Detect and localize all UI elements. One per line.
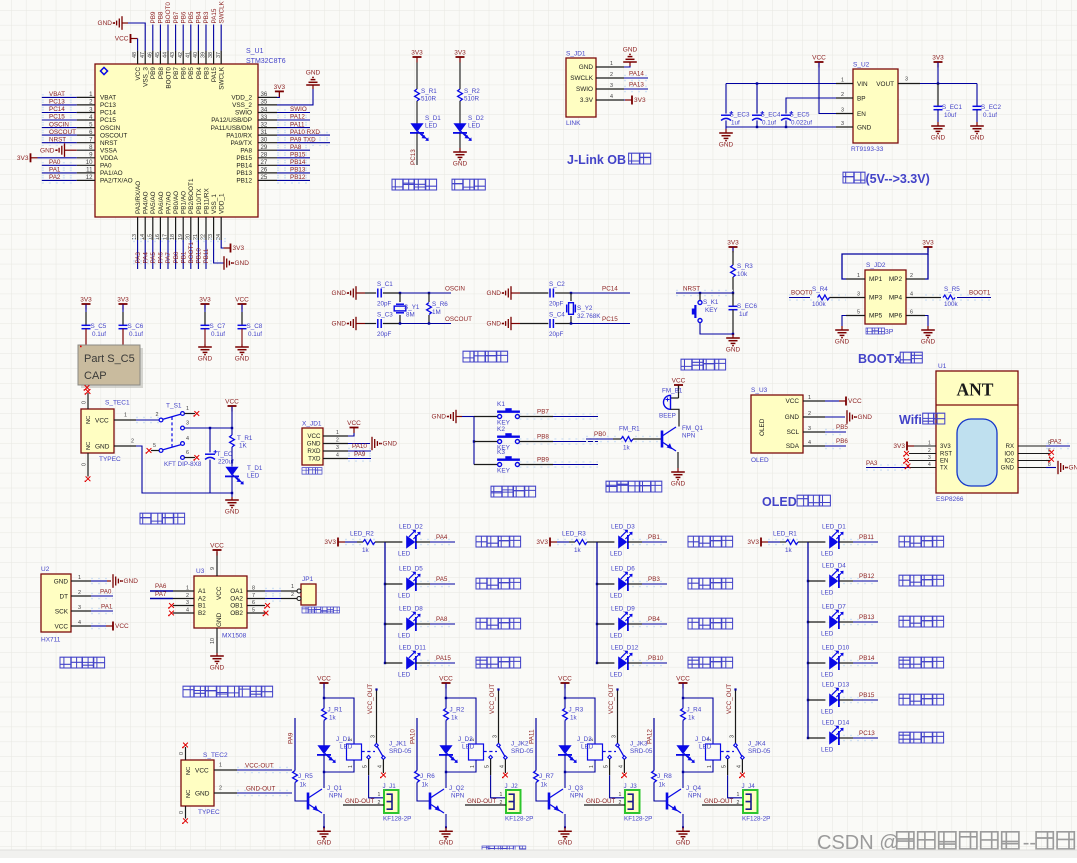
svg-text:J_JK2: J_JK2 [511, 741, 529, 748]
U1 left pins and nets [77, 96, 95, 98]
svg-text:S_JD1: S_JD1 [566, 51, 586, 58]
svg-text:PB15: PB15 [236, 155, 252, 162]
no-connect at U1 EN [904, 458, 909, 463]
capacitor S_EC3 1uf [725, 84, 727, 114]
svg-text:MP2: MP2 [889, 276, 903, 283]
svg-text:GND: GND [671, 480, 686, 487]
svg-text:J_R5: J_R5 [298, 773, 313, 780]
power VCC above S_U2 [815, 61, 824, 63]
svg-text:10uf: 10uf [944, 112, 957, 119]
svg-text:PA6/AO: PA6/AO [158, 191, 165, 214]
svg-text:PA10: PA10 [410, 729, 417, 744]
svg-text:PB9: PB9 [150, 11, 157, 23]
net PB8 at K2 [519, 441, 553, 443]
wire PC15 [555, 323, 571, 325]
svg-text:PB6: PB6 [181, 67, 188, 80]
svg-text:GND: GND [235, 355, 250, 362]
power 3V3 above S_R3 [729, 246, 738, 248]
svg-text:VCC: VCC [195, 768, 209, 775]
svg-text:GND: GND [332, 290, 347, 297]
svg-text:PB3: PB3 [203, 67, 210, 80]
svg-text:3V3: 3V3 [940, 444, 951, 450]
svg-text:VSS_2: VSS_2 [232, 102, 252, 109]
svg-text:PB14: PB14 [290, 159, 306, 166]
svg-text:20pF: 20pF [549, 301, 564, 308]
svg-text:GND: GND [676, 840, 691, 847]
svg-text:PA2: PA2 [49, 174, 61, 181]
svg-text:3: 3 [371, 735, 377, 738]
LED LED_D11 [385, 662, 402, 664]
wire buzzer to collector [671, 409, 680, 418]
ground left of S_C1 [355, 286, 357, 300]
LED LED_D5 [385, 583, 402, 585]
svg-text:BOOT0: BOOT0 [165, 2, 172, 24]
svg-text:1: 1 [336, 430, 339, 436]
wire key to ground rail [700, 323, 733, 334]
svg-text:HX711: HX711 [41, 637, 61, 644]
wire VIN rail [726, 83, 836, 85]
net BOOT0 and resistor S_R4 100k [789, 297, 810, 299]
svg-text:S_C3: S_C3 [377, 312, 393, 319]
svg-text:PA11: PA11 [290, 121, 305, 128]
svg-text:VCC: VCC [115, 623, 129, 630]
no-connect at J_JK2 pin 4 [504, 759, 506, 773]
capacitor S_C3 20pF [377, 319, 379, 328]
power 3V3 above S_R1 [413, 56, 422, 58]
svg-text:GND: GND [432, 414, 447, 421]
svg-text:J_R2: J_R2 [450, 707, 465, 714]
svg-text:3V3: 3V3 [117, 297, 129, 304]
net PC13 at LED_D14 [839, 737, 853, 739]
svg-text:5: 5 [604, 765, 610, 768]
transistor J_Q1 NPN [307, 793, 310, 810]
svg-text:VCC: VCC [95, 418, 109, 425]
svg-text:B1: B1 [198, 603, 206, 610]
net PA5 at LED_D5 [416, 583, 430, 585]
LED LED_D12 [597, 662, 614, 664]
svg-text:2: 2 [500, 800, 503, 806]
svg-text:2: 2 [131, 439, 134, 445]
svg-text:PC13: PC13 [410, 149, 417, 165]
svg-text:(5V-->3.3V): (5V-->3.3V) [866, 172, 930, 186]
svg-text:OSCOUT: OSCOUT [49, 129, 76, 136]
caption relay circuit partially hidden [482, 846, 488, 852]
LED J_D2 [439, 745, 452, 754]
svg-text:2: 2 [808, 411, 811, 417]
capacitor S_C6 0.1uf [122, 305, 124, 313]
svg-text:3: 3 [841, 108, 844, 114]
caption programmable lamp [392, 179, 403, 190]
svg-text:GND: GND [453, 160, 468, 167]
no-connect at U3 OB2 [264, 611, 269, 616]
no-connect at U1 IO0 [1046, 453, 1050, 455]
svg-text:GND: GND [487, 290, 502, 297]
svg-text:S_Y2: S_Y2 [577, 305, 593, 312]
svg-text:20pF: 20pF [549, 331, 564, 338]
caption key circuit [491, 486, 502, 497]
svg-text:3V3: 3V3 [922, 240, 934, 247]
svg-text:3V3: 3V3 [893, 443, 905, 450]
net PA15 at LED_D11 [416, 662, 430, 664]
connector S_JD2 jumper 3P [865, 270, 906, 324]
LED LED_D2 [385, 541, 402, 543]
svg-text:VCC: VCC [307, 433, 321, 440]
svg-text:GND: GND [198, 355, 213, 362]
resistor LED_R1 1k [780, 541, 786, 543]
svg-text:3: 3 [78, 605, 81, 611]
svg-text:LED: LED [699, 744, 712, 751]
svg-text:100k: 100k [944, 301, 959, 308]
svg-text:PA6: PA6 [155, 583, 167, 590]
LED LED_D8 [385, 623, 402, 625]
svg-text:2: 2 [336, 438, 339, 444]
svg-text:MP4: MP4 [889, 295, 903, 302]
driver U3 MX1508 [194, 576, 247, 628]
net PA11 wire [535, 718, 537, 771]
svg-text:PA9 TXD: PA9 TXD [290, 136, 316, 143]
svg-text:0.022uf: 0.022uf [791, 120, 812, 127]
svg-text:1: 1 [186, 586, 189, 592]
svg-text:LED_D9: LED_D9 [611, 606, 635, 613]
wire J_D1 to collector of J_Q1 [323, 755, 325, 788]
svg-text:1k: 1k [422, 782, 430, 789]
LED LED_D3 [597, 541, 614, 543]
svg-text:OB2: OB2 [230, 610, 243, 617]
svg-text:3V3: 3V3 [324, 539, 336, 546]
power 3V3 above S_JD2 [924, 246, 933, 248]
svg-text:PA9: PA9 [354, 451, 366, 458]
svg-text:RT9193-33: RT9193-33 [851, 146, 884, 153]
wire OSCIN [383, 292, 400, 294]
svg-text:GND: GND [124, 578, 139, 585]
ground below J_Q3 [564, 814, 566, 827]
svg-text:PB13: PB13 [236, 170, 252, 177]
svg-text:1k: 1k [362, 547, 370, 554]
svg-text:PB0/AO: PB0/AO [173, 191, 180, 214]
S_TEC1 pin 2 wire to ground rail [114, 445, 136, 447]
svg-text:5: 5 [857, 310, 860, 316]
no-connect at J_JK3 pin 4 [623, 759, 625, 773]
svg-text:OSCIN: OSCIN [49, 121, 69, 128]
svg-text:JP1: JP1 [302, 576, 314, 583]
svg-text:PB5: PB5 [188, 67, 195, 80]
svg-text:3P: 3P [885, 329, 894, 336]
svg-text:PB1: PB1 [648, 534, 660, 541]
wire VCC to EN [819, 63, 836, 114]
net PA1 at U2 pin 3 [91, 610, 113, 612]
svg-text:VIN: VIN [857, 81, 868, 88]
svg-text:BEEP: BEEP [659, 413, 676, 420]
svg-text:VCC: VCC [786, 398, 800, 405]
svg-text:0.1uf: 0.1uf [762, 120, 776, 127]
svg-text:PB7: PB7 [173, 67, 180, 80]
svg-text:2: 2 [610, 72, 613, 78]
svg-text:SWCLK: SWCLK [570, 75, 593, 82]
svg-text:LED: LED [340, 744, 353, 751]
svg-text:J_Q4: J_Q4 [686, 785, 702, 792]
wire VCC to relay coil of J_JK1 [324, 698, 354, 744]
wire 3V3 loop to pins 1 and 2 [842, 248, 928, 280]
capacitor S_C7 0.1uf [204, 305, 206, 313]
svg-text:S_C6: S_C6 [128, 323, 144, 330]
svg-text:GND: GND [317, 840, 332, 847]
svg-text:PB10: PB10 [196, 248, 203, 264]
svg-text:LED_R2: LED_R2 [350, 531, 374, 538]
svg-text:PA14: PA14 [629, 71, 644, 78]
svg-text:3: 3 [730, 735, 736, 738]
svg-text:GND-OUT: GND-OUT [467, 798, 497, 805]
svg-text:LED_D13: LED_D13 [822, 682, 850, 689]
svg-text:PA5/AO: PA5/AO [150, 191, 157, 214]
svg-text:OSCOUT: OSCOUT [100, 132, 127, 139]
svg-text:1: 1 [500, 792, 503, 798]
svg-text:PB12: PB12 [236, 178, 252, 185]
svg-text:LED_D5: LED_D5 [399, 566, 423, 573]
relay coil of J_JK1 [347, 744, 362, 760]
ground at U1 VSS_3 pin 47 [121, 16, 123, 30]
svg-text:0: 0 [82, 401, 88, 404]
svg-text:1k: 1k [451, 715, 459, 722]
power VCC at U1 pin 48 [130, 34, 132, 43]
svg-text:ANT: ANT [957, 380, 994, 400]
svg-text:S_JD2: S_JD2 [866, 262, 886, 269]
key ground bus [473, 417, 475, 465]
ground below S_C7 [204, 329, 206, 344]
svg-text:2: 2 [291, 592, 294, 598]
ground left of S_C4 [510, 317, 512, 330]
wire J_D2 to collector of J_Q2 [445, 755, 447, 788]
svg-text:BP: BP [857, 96, 866, 103]
svg-text:LED: LED [247, 473, 260, 480]
resistor J_R6 1k [415, 771, 420, 783]
LED_R2 LED bus wire [384, 542, 386, 663]
push button S_K1 KEY [699, 293, 701, 300]
svg-text:GND: GND [210, 664, 225, 671]
svg-text:VCC-OUT: VCC-OUT [245, 763, 274, 770]
svg-text:PA15: PA15 [436, 655, 451, 662]
svg-text:LED_D6: LED_D6 [611, 566, 635, 573]
svg-text:LED_D2: LED_D2 [399, 524, 423, 531]
caption PB13 lamp circuit [899, 616, 910, 627]
svg-text:LED: LED [821, 551, 834, 558]
svg-text:VCC: VCC [210, 543, 224, 550]
net PA14 at S_JD1 pin 2 [624, 77, 648, 79]
power 3V3 at U1 3V3 pin [906, 442, 908, 451]
svg-text:PB11: PB11 [203, 248, 210, 263]
net PB4 at LED_D9 [628, 623, 642, 625]
svg-text:PB9: PB9 [537, 457, 549, 464]
svg-text:VCC: VCC [317, 676, 331, 683]
svg-text:VCC_OUT: VCC_OUT [726, 684, 733, 714]
svg-text:0.1uf: 0.1uf [248, 331, 262, 338]
svg-text:LED: LED [821, 747, 834, 754]
svg-text:NPN: NPN [451, 793, 465, 800]
ground at U3 pin 10 [216, 628, 218, 653]
U1 right pins and nets [258, 96, 277, 98]
svg-text:J_JK4: J_JK4 [748, 741, 766, 748]
svg-text:PA9: PA9 [288, 732, 295, 744]
connector JP1 motor socket [301, 584, 316, 605]
svg-text:GND: GND [835, 338, 850, 345]
svg-text:EN: EN [940, 459, 948, 465]
svg-text:SRD-05: SRD-05 [511, 748, 534, 755]
svg-text:J_Q1: J_Q1 [327, 785, 343, 792]
wire OA1 to JP1 pin 1 [265, 590, 281, 592]
svg-text:LED: LED [398, 633, 411, 640]
svg-text:PB1/AO: PB1/AO [181, 191, 188, 214]
net PB1 at LED_D3 [628, 541, 642, 543]
svg-text:GND: GND [726, 346, 741, 353]
svg-text:NRST: NRST [100, 140, 117, 147]
bottom scrollbar strip [0, 850, 1077, 858]
svg-text:VCC_OUT: VCC_OUT [489, 684, 496, 714]
wire J_JK3 pin 5 to J_J3 [609, 759, 611, 775]
svg-text:GND: GND [195, 791, 210, 798]
svg-text:4: 4 [737, 765, 743, 768]
svg-text:PA1: PA1 [101, 604, 113, 611]
svg-text:PB4: PB4 [196, 11, 203, 23]
ground at X_JD1 pin 2 [348, 443, 370, 445]
svg-text:PB7: PB7 [537, 409, 549, 416]
svg-text:KEY: KEY [497, 468, 511, 475]
svg-text:1: 1 [857, 273, 860, 279]
svg-text:U2: U2 [41, 566, 50, 573]
svg-text:3: 3 [857, 292, 860, 298]
svg-text:OLED: OLED [762, 495, 797, 509]
wire BP to S_EC5 [786, 98, 836, 114]
svg-text:PA3: PA3 [866, 460, 878, 467]
svg-text:510R: 510R [464, 96, 480, 103]
svg-text:VBAT: VBAT [49, 91, 65, 98]
svg-text:3V3: 3V3 [747, 539, 759, 546]
power 3V3 feeding LED_R2 [337, 538, 339, 547]
svg-text:PA8: PA8 [290, 144, 302, 151]
caption weighing module [60, 657, 71, 668]
ground of TEC1 circuit [231, 497, 233, 500]
ground left of key circuit [455, 410, 457, 423]
svg-text:S_EC2: S_EC2 [981, 104, 1001, 111]
no-connect at U1 IO2 [1046, 460, 1050, 462]
svg-text:LED: LED [398, 551, 411, 558]
svg-text:1uf: 1uf [739, 311, 748, 318]
net PA2 at U1 RX [1046, 445, 1070, 447]
svg-text:NPN: NPN [682, 433, 696, 440]
svg-text:PA1/AO: PA1/AO [100, 170, 123, 177]
svg-text:1: 1 [348, 765, 354, 768]
svg-text:SCK: SCK [55, 608, 69, 615]
svg-text:VSSA: VSSA [100, 147, 118, 154]
svg-text:BOOT1: BOOT1 [969, 290, 991, 297]
svg-text:5: 5 [252, 608, 255, 614]
LED J_D4 [676, 745, 689, 754]
ground below S_D2 [459, 133, 461, 148]
svg-text:PB15: PB15 [859, 692, 875, 699]
svg-text:BOOT1: BOOT1 [188, 242, 195, 264]
svg-text:10k: 10k [737, 271, 748, 278]
wire PC14 [555, 292, 571, 294]
wire J_D3 to collector of J_Q3 [564, 755, 566, 788]
svg-text:1k: 1k [688, 715, 696, 722]
svg-text:OLED: OLED [751, 457, 769, 464]
svg-text:2: 2 [737, 800, 740, 806]
LED LED_D1 [808, 541, 825, 543]
svg-text:GND: GND [307, 441, 321, 448]
svg-text:SWIO: SWIO [235, 110, 252, 117]
resistor T_R1 1K [231, 407, 233, 436]
LED LED_D4 [808, 580, 825, 582]
svg-text:FM_R1: FM_R1 [619, 426, 640, 433]
svg-text:4: 4 [610, 94, 613, 100]
svg-text:PB15: PB15 [290, 152, 306, 159]
svg-text:4: 4 [378, 765, 384, 768]
svg-text:5: 5 [722, 765, 728, 768]
svg-text:S_EC4: S_EC4 [761, 112, 781, 119]
svg-text:1k: 1k [623, 445, 631, 452]
capacitor S_EC4 0.1uf [756, 84, 758, 114]
svg-text:3: 3 [186, 600, 189, 606]
svg-text:1k: 1k [659, 782, 667, 789]
connector J_J2 KF128-2P [506, 790, 521, 813]
caption PB15 lamp circuit [899, 694, 910, 705]
svg-text:0.1uf: 0.1uf [129, 331, 143, 338]
module U1 ESP8266 [936, 371, 1018, 493]
svg-text:FM_B1: FM_B1 [662, 388, 683, 395]
svg-text:PA0: PA0 [49, 159, 61, 166]
svg-text:VOUT: VOUT [876, 81, 894, 88]
net PB11 at LED_D1 [839, 541, 853, 543]
svg-text:MP5: MP5 [869, 313, 883, 320]
push button K3 KEY [474, 464, 498, 466]
svg-text:100k: 100k [812, 301, 827, 308]
power 3V3 at S_JD1 pin 4 [624, 99, 625, 101]
power VCC above J_R2 [442, 682, 451, 684]
svg-text:TXD: TXD [308, 456, 321, 463]
caption power lamp [452, 179, 463, 190]
svg-text:510R: 510R [421, 96, 437, 103]
svg-text:4: 4 [186, 436, 189, 442]
svg-text:U3: U3 [196, 568, 205, 575]
svg-text:PA10/RX: PA10/RX [226, 132, 253, 139]
svg-text:BOOTx: BOOTx [858, 352, 901, 366]
power VCC at U2 pin 4 [91, 625, 106, 627]
svg-text:PA7: PA7 [165, 252, 172, 264]
svg-text:2: 2 [841, 92, 844, 98]
svg-text:S_R6: S_R6 [432, 301, 448, 308]
svg-text:J_J3: J_J3 [624, 783, 638, 790]
svg-text:LED_D10: LED_D10 [822, 645, 850, 652]
wire J_JK4 pin 5 to J_J4 [727, 759, 729, 775]
svg-text:1k: 1k [570, 715, 578, 722]
wire J_JK1 pin 5 to J_J1 [368, 759, 370, 775]
ground at S_JD1 pin 1 [624, 66, 630, 67]
svg-text:PA13: PA13 [629, 82, 644, 89]
svg-text:S_R1: S_R1 [421, 88, 437, 95]
svg-text:PC14: PC14 [602, 286, 618, 293]
svg-text:PC13: PC13 [49, 99, 65, 106]
svg-text:VCC: VCC [225, 399, 239, 406]
svg-text:PB5: PB5 [836, 424, 848, 431]
svg-text:PA11/USB/DM: PA11/USB/DM [211, 125, 252, 132]
svg-text:1: 1 [707, 765, 713, 768]
svg-text:1k: 1k [574, 547, 582, 554]
svg-text:PC15: PC15 [100, 117, 116, 124]
svg-text:S_EC3: S_EC3 [730, 112, 750, 119]
svg-text:LED: LED [821, 672, 834, 679]
svg-text:IO0: IO0 [1004, 452, 1014, 458]
svg-text:KF128-2P: KF128-2P [742, 816, 770, 823]
svg-text:NC: NC [86, 416, 92, 424]
svg-text:PB2/BOOT1: PB2/BOOT1 [188, 178, 195, 214]
